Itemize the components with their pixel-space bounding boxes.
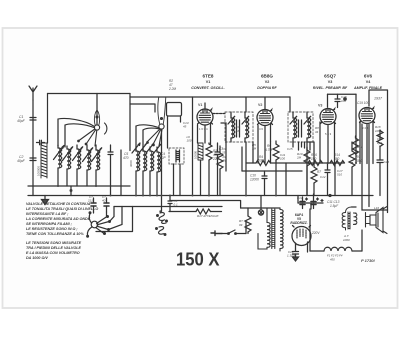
junction dots on bus — [70, 189, 278, 213]
label R11 — [357, 145, 363, 149]
svg-text:LA CORRENTE MISURATA AD ONDE: LA CORRENTE MISURATA AD ONDE — [26, 217, 91, 221]
svg-text:RADDRIZZ.: RADDRIZZ. — [290, 221, 307, 225]
coil L7 osc — [129, 143, 140, 196]
svg-text:1P: 1P — [236, 129, 240, 133]
svg-text:100: 100 — [187, 139, 192, 143]
wire antenna down — [32, 100, 34, 186]
svg-text:6SQ7: 6SQ7 — [324, 74, 336, 79]
label C9 — [221, 147, 226, 155]
wire speaker drop — [361, 230, 363, 251]
svg-text:99: 99 — [239, 223, 243, 227]
tube V3 label — [313, 74, 348, 91]
label C11 — [280, 153, 286, 161]
speaker — [366, 206, 388, 234]
wire second top bus — [130, 96, 290, 98]
notes paragraph 2 — [26, 241, 82, 260]
wire main ground bus — [28, 195, 373, 197]
capacitor C6 — [168, 196, 178, 212]
svg-text:V2: V2 — [258, 103, 262, 107]
svg-text:2M: 2M — [296, 156, 302, 160]
label L6 — [187, 135, 192, 143]
wire IFT1 right edge drop — [252, 142, 254, 163]
coil L8 — [139, 143, 147, 196]
svg-text:V3: V3 — [318, 104, 322, 108]
wire long vertical to AVC bus — [192, 97, 194, 196]
svg-text:40pF: 40pF — [17, 159, 26, 163]
wire switch S1 stem — [96, 94, 98, 125]
tube V1 — [197, 103, 213, 144]
svg-text:VALVOLE METALICHE DI CONTINUA: VALVOLE METALICHE DI CONTINUA — [26, 202, 91, 206]
svg-text:53K: 53K — [258, 159, 265, 163]
resistor R3 — [206, 143, 220, 196]
wire tone caps runs — [94, 207, 133, 234]
coil L6 — [92, 145, 103, 186]
wire IFT2 secondary down — [293, 142, 307, 196]
label R5 — [252, 143, 257, 151]
svg-text:100000: 100000 — [37, 166, 41, 176]
pilot lamp — [258, 196, 263, 216]
coil L5 — [83, 145, 94, 186]
wire shield box drops — [174, 164, 181, 196]
tone switch S2 — [87, 212, 111, 237]
band switch S1a — [58, 110, 107, 146]
coil L9 — [146, 143, 154, 196]
ground — [42, 196, 49, 205]
power transformer T1 — [258, 208, 283, 251]
IF transformer IFT1 — [225, 112, 253, 142]
svg-text:V1: V1 — [198, 103, 202, 107]
wire mid horizontal — [242, 147, 302, 171]
resistor R11b — [353, 136, 359, 154]
svg-text:25: 25 — [221, 151, 226, 155]
ground under C24 — [293, 254, 299, 261]
wire V1 plate dashed to IFT1 — [213, 113, 225, 115]
notes paragraph 1 — [26, 202, 98, 236]
svg-text:22K: 22K — [212, 157, 220, 161]
svg-text:3 4 8: 3 4 8 — [362, 126, 369, 130]
wire x369 filament drop — [368, 106, 370, 207]
capacitor C16 — [262, 171, 267, 196]
wire output transformer to V4 — [352, 206, 357, 208]
coil L10 — [153, 144, 161, 196]
wire IFT2 pins down — [299, 142, 302, 150]
IF transformer IFT2 — [288, 112, 313, 142]
label R20 — [239, 219, 243, 227]
output transformer T2 — [342, 207, 357, 242]
wire vertical x130 — [129, 94, 131, 151]
svg-text:100: 100 — [341, 99, 346, 103]
svg-text:V2: V2 — [265, 80, 270, 84]
capacitor C2 — [17, 155, 36, 163]
tube V3 — [315, 104, 336, 164]
svg-text:LE RESISTENZE SONO IN Ω ;: LE RESISTENZE SONO IN Ω ; — [26, 227, 78, 231]
svg-text:45: 45 — [183, 125, 187, 129]
tube V2 label — [257, 74, 277, 91]
svg-text:C15: C15 — [287, 147, 293, 151]
svg-text:V3: V3 — [328, 80, 333, 84]
wire osc coil down — [200, 160, 202, 196]
svg-text:4.7M: 4.7M — [265, 148, 272, 152]
electrolytic C22 — [87, 195, 96, 212]
resistor R6 — [265, 141, 279, 196]
resistor R14 — [330, 153, 345, 166]
tube V4 label — [353, 74, 383, 91]
svg-text:V1: V1 — [206, 80, 211, 84]
label R2 2.2M — [168, 79, 176, 91]
wire x335 drop — [334, 163, 336, 196]
tube V5 — [292, 226, 311, 253]
capacitor C18 — [335, 94, 347, 107]
tube V2 — [257, 97, 273, 163]
svg-text:52P: 52P — [160, 156, 167, 160]
wire fan2 arms down — [136, 126, 143, 151]
wire fan1 arms down — [58, 119, 65, 147]
junction dots row 2 — [57, 162, 357, 204]
svg-text:TRA I PIEDINI DELLE VALVOLE: TRA I PIEDINI DELLE VALVOLE — [26, 246, 81, 250]
coil L2 — [54, 145, 65, 186]
label 220V — [311, 231, 320, 235]
svg-text:40: 40 — [102, 199, 106, 203]
label C10 — [250, 174, 259, 182]
svg-text:3000: 3000 — [129, 160, 133, 167]
mains switch — [228, 230, 246, 234]
svg-text:220V: 220V — [311, 231, 320, 235]
resistor R16 — [308, 153, 323, 166]
svg-text:1937: 1937 — [374, 97, 383, 101]
label C15b — [287, 147, 293, 151]
wire filament line — [114, 206, 222, 208]
filter choke — [310, 247, 362, 261]
svg-text:0.1: 0.1 — [174, 203, 179, 207]
wire IFT1 plate riser — [245, 97, 247, 112]
wire V1 pin drops — [221, 123, 226, 171]
svg-text:470: 470 — [123, 156, 129, 160]
label C5 — [123, 152, 129, 160]
wire antenna to bus ticks — [33, 186, 71, 196]
svg-text:R7: R7 — [317, 170, 321, 174]
resistor R21 ballast — [245, 208, 251, 234]
svg-text:2.2M: 2.2M — [168, 87, 176, 91]
coil L4 — [73, 145, 84, 186]
wire under V3 drops — [322, 162, 330, 164]
svg-text:1.5µF: 1.5µF — [330, 204, 339, 208]
shield box L11 — [160, 148, 184, 164]
wire x286 drop — [285, 163, 287, 196]
capacitor C12 — [320, 163, 330, 196]
svg-text:LE TENSIONI SONO MISURATE: LE TENSIONI SONO MISURATE — [26, 241, 82, 245]
svg-text:1 6 3 4: 1 6 3 4 — [199, 127, 208, 131]
capacitor C3 mid-left — [108, 145, 113, 196]
label 1937 — [374, 97, 383, 101]
padder box — [167, 103, 182, 149]
coil L12 osc coil under V1 — [194, 143, 204, 160]
svg-text:TIENE CON TOLLERANZE A 10%: TIENE CON TOLLERANZE A 10% — [26, 232, 84, 236]
wire top-left bus — [48, 93, 131, 95]
label C13 — [183, 121, 189, 129]
coil L3 — [63, 146, 74, 186]
svg-text:C19 100: C19 100 — [357, 101, 369, 105]
capacitor C2b — [37, 140, 45, 144]
svg-text:510: 510 — [337, 173, 342, 177]
capacitor C7 — [215, 143, 223, 196]
label C17 — [337, 169, 343, 177]
wire choke left — [309, 209, 311, 251]
wire vertical x121 — [120, 150, 122, 196]
capacitor C1 — [17, 115, 36, 123]
wire right edge vertical — [369, 90, 388, 213]
wire caps bus — [298, 202, 331, 204]
svg-text:450: 450 — [330, 258, 335, 262]
svg-text:40pF: 40pF — [17, 119, 26, 123]
wire heater line — [170, 201, 241, 209]
svg-text:150 X: 150 X — [176, 250, 220, 270]
coil L1 tuning — [37, 143, 48, 178]
label R18 — [375, 125, 383, 145]
svg-text:INTERESSANTE LA BF ;: INTERESSANTE LA BF ; — [26, 212, 69, 216]
svg-text:100: 100 — [280, 157, 285, 161]
svg-text:6B8G: 6B8G — [261, 74, 273, 79]
svg-text:R17 ATTENUAT.: R17 ATTENUAT. — [197, 214, 220, 218]
svg-text:C14: C14 — [297, 196, 303, 200]
wire second top-left line — [130, 104, 155, 112]
svg-text:E LA MASSA CON VOLMETRO: E LA MASSA CON VOLMETRO — [26, 251, 80, 255]
wire AVC bus upper — [28, 185, 130, 187]
part number — [361, 258, 376, 263]
svg-text:DA 1000 Ω/V: DA 1000 Ω/V — [26, 256, 48, 260]
tube V5 label — [290, 213, 307, 225]
wire x362 drop — [362, 124, 388, 210]
wavy switch S3 — [156, 213, 168, 236]
antenna — [29, 86, 37, 100]
wire B+ vertical — [310, 203, 312, 209]
label C13 — [327, 200, 340, 208]
wire IFT2 riser — [289, 97, 291, 112]
resistor R10b — [304, 147, 310, 196]
wire V4 cathode bits — [377, 130, 383, 160]
resistor R9 — [349, 142, 363, 196]
wire x246 vertical — [245, 142, 247, 196]
svg-text:CONVERT. OSCILL.: CONVERT. OSCILL. — [191, 86, 224, 90]
svg-text:4 6: 4 6 — [259, 127, 263, 131]
band switch S1b — [136, 97, 166, 146]
svg-text:C20: C20 — [384, 160, 390, 164]
wire left frame vertical — [47, 94, 49, 144]
svg-text:C12: C12 — [320, 175, 326, 179]
wire transformer top frame — [241, 208, 280, 234]
svg-text:10000: 10000 — [194, 151, 198, 159]
svg-text:LE TONALITA TRASLI QUASI DI LI: LE TONALITA TRASLI QUASI DI LIVELLO — [26, 207, 98, 211]
label R10 — [296, 152, 303, 160]
svg-text:RIVEL. PREAMP. BF: RIVEL. PREAMP. BF — [313, 86, 348, 90]
svg-text:6TE8: 6TE8 — [203, 74, 214, 79]
capacitor C19 label — [357, 101, 369, 105]
tube V4 — [359, 107, 375, 164]
resistor R2b — [217, 146, 227, 196]
wire bus right drop — [297, 196, 299, 204]
mains plug — [211, 231, 228, 236]
wire under V2 drops — [258, 142, 271, 164]
wire IFT2 inner drops — [305, 142, 311, 150]
svg-text:1000: 1000 — [343, 238, 350, 242]
capacitor C24 — [287, 249, 299, 258]
svg-text:34: 34 — [315, 130, 319, 134]
resistor R4 — [246, 155, 344, 166]
svg-text:DOPPIA RF: DOPPIA RF — [257, 86, 277, 90]
electrolytic C15 — [311, 194, 319, 209]
electrolytic C14 — [297, 196, 308, 209]
svg-text:12000: 12000 — [250, 178, 259, 182]
svg-text:P 1730I: P 1730I — [361, 258, 376, 263]
model number 150X — [176, 250, 220, 270]
svg-text:5 4 3: 5 4 3 — [325, 132, 332, 136]
electrolytic C23 — [102, 195, 109, 212]
wire top bus V3V4 — [328, 94, 357, 163]
svg-text:6V6: 6V6 — [364, 74, 373, 79]
capacitor C20 — [377, 160, 389, 196]
wire switch stem down — [161, 130, 163, 212]
tube V1 label — [191, 74, 224, 91]
resistor R7 — [307, 142, 321, 196]
svg-text:SE INTERROMPA FILAMI ;: SE INTERROMPA FILAMI ; — [26, 222, 73, 226]
capacitor C13 — [321, 195, 331, 202]
volume pot R17 — [169, 209, 222, 218]
